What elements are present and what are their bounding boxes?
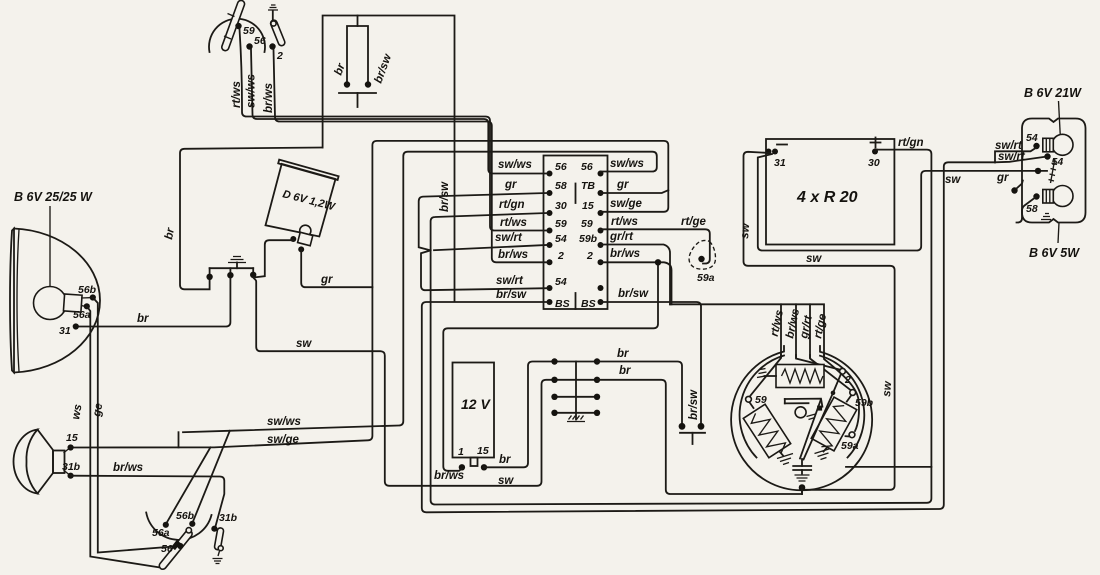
wire sw/ge diagonal to dimmer 56a: [167, 447, 211, 523]
svg-text:56b: 56b: [176, 510, 195, 522]
svg-text:sw/ws: sw/ws: [267, 416, 301, 428]
wire br/ws from block 2 branch to coil terminal 1: [443, 264, 658, 471]
terminal 2 dot: [269, 43, 275, 49]
wire gr loop at block right: [601, 190, 669, 193]
svg-text:56: 56: [555, 161, 567, 173]
wire ws headlight to dimmer lever: [87, 306, 160, 567]
wire br from headlight 31 to lamp junction: [76, 278, 231, 327]
block right wire labels: [609, 158, 649, 300]
tail light housing: [1022, 119, 1086, 223]
svg-text:br: br: [617, 348, 629, 360]
svg-text:gr: gr: [320, 274, 333, 286]
wire rt/ws block 59 right to 59a connector: [601, 229, 710, 263]
svg-text:br/ws: br/ws: [113, 462, 143, 474]
magneto stator inner arc right: [820, 356, 864, 458]
magneto feed branches: [780, 304, 782, 357]
brake bulb 21W: [1026, 132, 1073, 168]
svg-text:31: 31: [774, 157, 786, 169]
svg-text:sw/ge: sw/ge: [267, 434, 300, 446]
handlebar switch dome arc: [209, 19, 265, 52]
horn terminals 15 and 31b: [62, 432, 81, 479]
fuse junction ground stem: [567, 362, 585, 422]
wire sw/ws jog to horn feed: [178, 432, 180, 447]
wire sw/ws loop block top: [183, 152, 657, 433]
headlight terminals 56b 56a 31: [59, 284, 97, 337]
wire br from coil 15 to fuse junction row1: [484, 362, 552, 468]
wire sw from lamp junction to fuse junction row2: [253, 278, 552, 486]
wire br/sw BS left loop to tail brake light: [422, 162, 995, 512]
svg-text:br: br: [619, 365, 631, 377]
wire br junction row2 to magneto frame: [597, 380, 802, 494]
wire sw/rt block 54 row5: [434, 245, 547, 250]
tail bulb 5W: [1026, 186, 1073, 216]
block terminal dots right column: [598, 171, 604, 306]
dimmer switch lever 56: [158, 528, 194, 571]
svg-text:54: 54: [555, 276, 567, 288]
svg-text:rt/gn: rt/gn: [499, 199, 525, 211]
magneto lighting coil top: [757, 365, 824, 388]
contact breaker plate: [785, 399, 823, 420]
terminal 59 dot: [235, 23, 241, 29]
svg-text:sw: sw: [806, 253, 822, 265]
wire sw/ws diagonal to dimmer 56b: [193, 431, 230, 522]
svg-text:54: 54: [555, 233, 567, 245]
dimmer lever 31b with ground: [213, 527, 224, 563]
wire sw/rt 54 link row5 to row7: [421, 250, 547, 290]
dimmer switch arc: [146, 513, 211, 540]
svg-text:BS: BS: [555, 298, 570, 310]
svg-text:59: 59: [581, 218, 593, 230]
svg-text:2: 2: [586, 250, 593, 262]
battery terminal 30 plus: [868, 138, 881, 170]
wire 58 spare end: [1017, 197, 1037, 223]
svg-text:15: 15: [582, 200, 594, 212]
svg-text:4 x R 20: 4 x R 20: [796, 189, 858, 206]
wire from speedo bulb to lamp junction: [256, 240, 294, 277]
svg-text:31b: 31b: [219, 512, 238, 524]
svg-text:12 V: 12 V: [461, 396, 491, 412]
svg-text:30: 30: [555, 200, 567, 212]
59a connector dashed outline: [689, 240, 715, 269]
svg-text:sw: sw: [739, 222, 752, 239]
svg-text:56a: 56a: [152, 527, 170, 539]
svg-text:ge: ge: [91, 402, 105, 419]
svg-text:2: 2: [276, 50, 283, 62]
handlebar switch lever 2 with ground: [268, 5, 286, 47]
brake connector plug: [679, 389, 705, 444]
wire ge headlight to dimmer contact: [93, 298, 178, 553]
wire rt/gn battery 30 stub: [875, 150, 877, 152]
svg-text:B 6V 25/25 W: B 6V 25/25 W: [14, 190, 93, 204]
magneto bottom terminal: [799, 484, 806, 491]
svg-text:br/ws: br/ws: [498, 249, 528, 261]
svg-text:rt/ws: rt/ws: [231, 81, 243, 108]
svg-text:sw/rt: sw/rt: [998, 151, 1026, 163]
svg-text:B 6V 5W: B 6V 5W: [1029, 246, 1080, 260]
magneto flywheel circle with top gap: [731, 346, 872, 490]
svg-text:58: 58: [1026, 203, 1038, 215]
trunk wire gr / sw-ge : block 15 around left and down to horn: [74, 141, 669, 448]
svg-text:sw/rt: sw/rt: [495, 232, 523, 244]
lamp junction with ground: [206, 257, 256, 280]
svg-text:56: 56: [254, 35, 266, 47]
svg-text:59b: 59b: [579, 233, 598, 245]
svg-text:56b: 56b: [78, 284, 97, 296]
dimmer terminals: [152, 510, 238, 555]
svg-text:56: 56: [581, 161, 593, 173]
wire sw battery 31 to magneto frame: [744, 152, 895, 490]
magneto stator inner arc left: [740, 356, 784, 458]
wire gr from speedo bulb to sw/ge trunk: [301, 249, 372, 287]
svg-text:sw: sw: [945, 174, 961, 186]
magneto feed trunk: [670, 304, 824, 357]
battery 4 x R20 box: [766, 139, 894, 245]
svg-text:58: 58: [555, 180, 567, 192]
svg-text:54: 54: [1026, 132, 1038, 144]
block terminal dots left column: [547, 171, 553, 306]
handlebar switch lever 59: [221, 0, 246, 52]
svg-text:59: 59: [555, 218, 567, 230]
svg-text:rt/ws: rt/ws: [500, 217, 527, 229]
svg-text:gr: gr: [616, 179, 629, 191]
wire br/ws horn to dimmer 31b: [71, 476, 225, 527]
svg-text:31: 31: [59, 325, 71, 337]
wire sw battery 31 to tail light earth: [758, 154, 1047, 251]
svg-text:br/ws: br/ws: [263, 83, 275, 113]
svg-text:30: 30: [868, 157, 880, 169]
svg-text:gr: gr: [996, 172, 1009, 184]
speedometer lamp housing D 6V 1,2W: [266, 160, 339, 237]
svg-text:1: 1: [458, 446, 464, 458]
ignition coil 12V box: [453, 363, 495, 471]
block terminal numbers: [555, 161, 598, 310]
horn body: [14, 430, 65, 494]
magneto internal lead to 2: [796, 355, 840, 370]
svg-text:sw: sw: [881, 380, 894, 397]
terminal 56 dot: [246, 43, 252, 49]
magneto internal lead to 59b: [810, 355, 851, 390]
tail light chassis hatching lower: [1041, 214, 1051, 220]
svg-text:br: br: [137, 313, 149, 325]
svg-text:59a: 59a: [697, 272, 715, 284]
svg-text:BS: BS: [581, 298, 596, 310]
svg-text:br/sw: br/sw: [688, 389, 700, 420]
svg-text:br/ws: br/ws: [434, 470, 464, 482]
svg-text:sw/ws: sw/ws: [498, 159, 532, 171]
fuse junction rows with dots: [551, 358, 600, 416]
breaker junction and arm: [800, 374, 841, 460]
magneto internal lead to 59a: [824, 355, 859, 431]
brake light switch box outline: [323, 16, 455, 302]
wire sw/ws from switch 56 to block 56: [251, 50, 547, 174]
svg-text:56: 56: [161, 543, 173, 555]
svg-text:15: 15: [66, 432, 78, 444]
svg-text:sw/ge: sw/ge: [610, 198, 643, 210]
wire br/sw from block BS to connector: [601, 302, 702, 423]
block left wire labels: [495, 159, 532, 301]
svg-text:br/sw: br/sw: [618, 288, 649, 300]
svg-text:gr: gr: [504, 179, 517, 191]
wire gr block 58 down left: [419, 193, 547, 250]
svg-text:br/ws: br/ws: [610, 248, 640, 260]
svg-text:rt/gn: rt/gn: [898, 137, 924, 149]
wire 59a to chassis loop: [846, 466, 931, 468]
headlight bulb: [34, 287, 83, 320]
svg-text:sw/rt: sw/rt: [496, 275, 524, 287]
svg-text:br/sw: br/sw: [496, 289, 527, 301]
svg-text:15: 15: [477, 445, 489, 457]
svg-text:31b: 31b: [62, 461, 81, 473]
wire br/ws block row to magneto trunk: [601, 262, 672, 304]
wire br from brake switch to lamp junction: [180, 148, 323, 290]
headlight B 6V 25/25W body: [10, 229, 100, 373]
svg-text:br: br: [499, 454, 511, 466]
terminal block housing: [544, 156, 608, 310]
svg-text:2: 2: [557, 250, 564, 262]
svg-text:gr/rt: gr/rt: [609, 231, 634, 243]
svg-text:sw/ws: sw/ws: [610, 158, 644, 170]
magneto internal lead to 59: [751, 355, 782, 396]
speedometer bulb: [290, 225, 313, 252]
svg-text:sw/ws: sw/ws: [246, 74, 258, 108]
svg-text:sw: sw: [498, 475, 514, 487]
wire rt/gn block 30 loop to battery: [431, 150, 932, 505]
tail light chassis hatching upper: [1049, 158, 1058, 183]
wire rt/ws from switch 59 to block 59: [240, 29, 548, 231]
wire sw/rt fork to brake bulb: [995, 148, 1037, 163]
svg-text:rt/ge: rt/ge: [681, 216, 707, 228]
magneto lighting coil right: [810, 397, 857, 453]
magneto ignition coil left: [743, 404, 792, 460]
svg-text:B 6V 21W: B 6V 21W: [1024, 86, 1082, 100]
svg-text:sw: sw: [296, 338, 312, 350]
brake light switch symbol: [333, 16, 395, 108]
svg-text:59a: 59a: [841, 440, 859, 452]
wire br junction row1 to connector: [597, 362, 682, 423]
dangling terminal near 58: [1011, 181, 1023, 194]
wire gr/rt block 59b to magneto trunk: [601, 245, 671, 305]
battery terminal 31 minus: [766, 145, 788, 170]
svg-text:rt/ws: rt/ws: [611, 216, 638, 228]
svg-text:56a: 56a: [73, 309, 91, 321]
condenser: [793, 459, 811, 481]
wire br/ws from switch 2 to block 2: [274, 50, 548, 263]
svg-text:TB: TB: [581, 180, 595, 192]
